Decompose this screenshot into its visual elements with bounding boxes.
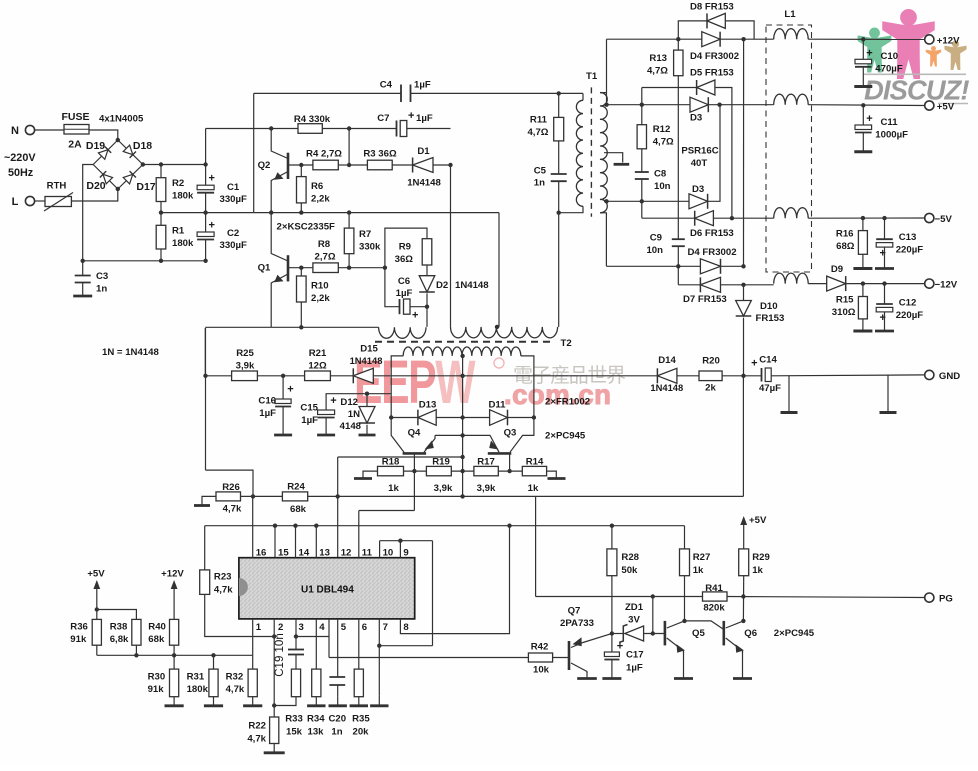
svg-text:PSR16C: PSR16C [681,146,718,157]
svg-text:12Ω: 12Ω [308,361,327,372]
svg-text:R38: R38 [110,622,128,633]
svg-text:1n: 1n [96,284,107,295]
svg-text:1N4148: 1N4148 [650,382,683,393]
svg-text:R23: R23 [214,572,232,583]
svg-text:C12: C12 [899,298,917,309]
svg-text:D3: D3 [692,184,704,195]
svg-text:4,7Ω: 4,7Ω [653,137,674,148]
svg-text:91k: 91k [148,684,165,695]
svg-text:1µF: 1µF [396,288,413,299]
svg-text:2k: 2k [705,383,716,394]
svg-text:+: + [330,395,336,407]
svg-text:Q3: Q3 [504,428,517,439]
svg-text:D8 FR153: D8 FR153 [690,1,734,12]
svg-text:16: 16 [256,548,267,559]
svg-text:2A: 2A [68,139,82,151]
svg-text:R27: R27 [693,552,711,563]
svg-text:4,7k: 4,7k [223,504,242,515]
svg-text:2×KSC2335F: 2×KSC2335F [277,222,336,233]
svg-text:1k: 1k [388,483,399,494]
svg-text:D5 FR153: D5 FR153 [690,68,734,79]
svg-text:1N = 1N4148: 1N = 1N4148 [102,347,159,358]
svg-text:R26: R26 [222,482,240,493]
svg-text:5: 5 [341,622,347,633]
svg-text:D1: D1 [417,146,430,157]
svg-text:6: 6 [362,622,367,633]
svg-text:R24: R24 [287,482,305,493]
svg-text:3,9k: 3,9k [477,483,496,494]
svg-text:GND: GND [939,371,960,382]
svg-text:C8: C8 [654,169,667,180]
svg-text:R15: R15 [836,295,854,306]
svg-text:3,9k: 3,9k [236,361,255,372]
svg-text:R12: R12 [653,124,671,135]
svg-text:C5: C5 [534,166,547,177]
svg-text:1N4148: 1N4148 [407,178,441,189]
svg-text:C2: C2 [227,228,239,239]
svg-text:50k: 50k [621,565,638,576]
svg-text:1000µF: 1000µF [875,130,908,141]
svg-text:2,2k: 2,2k [311,293,330,304]
svg-text:40T: 40T [691,158,708,169]
svg-text:Q7: Q7 [568,606,581,617]
svg-text:180k: 180k [172,238,194,249]
svg-text:~220V: ~220V [4,152,36,164]
svg-text:D20: D20 [86,180,105,192]
svg-text:1µF: 1µF [301,415,318,426]
svg-text:Q6: Q6 [744,628,757,639]
svg-text:R42: R42 [531,642,549,653]
svg-text:68k: 68k [148,634,165,645]
svg-text:220µF: 220µF [896,310,924,321]
svg-text:4,7k: 4,7k [226,684,245,695]
svg-text:2: 2 [278,622,283,633]
svg-text:+5V: +5V [749,515,767,526]
svg-text:1µF: 1µF [626,663,643,674]
svg-text:R31: R31 [187,672,205,683]
svg-text:C15: C15 [300,403,318,414]
svg-text:R35: R35 [352,714,370,725]
svg-text:15k: 15k [286,727,303,738]
svg-text:D19: D19 [86,140,105,152]
svg-text:R17: R17 [477,456,495,467]
svg-text:C10: C10 [881,51,899,62]
svg-text:R14: R14 [526,456,544,467]
svg-text:220µF: 220µF [896,245,924,256]
svg-text:2×PC945: 2×PC945 [774,628,815,639]
svg-text:180k: 180k [187,684,209,695]
svg-text:3,9k: 3,9k [434,483,453,494]
svg-text:−5V: −5V [935,214,953,225]
svg-text:R6: R6 [311,181,323,192]
svg-text:R11: R11 [530,115,548,126]
svg-text:2PA733: 2PA733 [560,618,594,629]
svg-text:D9: D9 [831,264,843,275]
svg-text:D4 FR3002: D4 FR3002 [690,51,739,62]
svg-text:11: 11 [362,548,373,559]
svg-text:3V: 3V [628,615,640,626]
svg-text:R41: R41 [705,583,723,594]
svg-text:47µF: 47µF [759,383,781,394]
svg-text:R25: R25 [236,348,254,359]
svg-text:330µF: 330µF [220,240,248,251]
svg-text:D14: D14 [658,355,676,366]
svg-text:Q5: Q5 [692,628,705,639]
svg-text:C7: C7 [377,113,389,124]
svg-text:820k: 820k [703,603,725,614]
svg-text:C20: C20 [328,714,346,725]
svg-text:6,8k: 6,8k [110,634,129,645]
svg-text:68Ω: 68Ω [836,241,855,252]
svg-text:FUSE: FUSE [61,111,89,123]
svg-text:+: + [866,48,872,60]
svg-text:10: 10 [383,548,394,559]
svg-text:C11: C11 [881,117,899,128]
svg-text:+5V: +5V [937,102,955,113]
svg-text:20k: 20k [352,727,369,738]
svg-text:1N4148: 1N4148 [350,355,383,366]
svg-text:+: + [412,310,418,322]
svg-text:4,7k: 4,7k [214,585,233,596]
svg-text:R29: R29 [752,552,770,563]
svg-text:R2: R2 [172,178,184,189]
svg-text:C13: C13 [899,232,917,243]
svg-text:+: + [208,220,214,232]
svg-text:91k: 91k [70,634,87,645]
svg-text:2×FR1002: 2×FR1002 [545,397,590,408]
svg-text:12: 12 [341,548,352,559]
svg-text:1µF: 1µF [416,113,433,124]
svg-text:14: 14 [299,548,310,559]
svg-text:4,7k: 4,7k [247,734,266,745]
svg-text:R21: R21 [309,348,327,359]
svg-text:D2: D2 [436,280,448,291]
svg-text:1µF: 1µF [414,80,431,91]
svg-text:R32: R32 [226,672,244,683]
svg-text:−12V: −12V [935,280,958,291]
svg-text:D11: D11 [488,399,506,410]
svg-text:R20: R20 [702,356,720,367]
svg-text:D18: D18 [133,140,152,152]
svg-text:R19: R19 [432,456,450,467]
svg-text:1k: 1k [752,565,763,576]
svg-text:10n: 10n [646,245,663,256]
svg-text:L: L [12,196,19,208]
svg-text:310Ω: 310Ω [832,307,856,318]
svg-text:1n: 1n [331,727,342,738]
svg-text:330µF: 330µF [220,194,248,205]
svg-text:10n: 10n [654,181,671,192]
svg-text:R16: R16 [836,229,854,240]
svg-text:+: + [866,113,872,125]
svg-text:+: + [617,641,623,653]
svg-text:C19 10n: C19 10n [274,633,286,676]
svg-text:4148: 4148 [340,421,362,432]
svg-text:N: N [11,125,19,137]
svg-text:R33: R33 [285,714,303,725]
svg-text:C16: C16 [258,396,276,407]
svg-text:10k: 10k [533,665,550,676]
svg-text:R4 2,7Ω: R4 2,7Ω [306,149,342,160]
svg-text:D10: D10 [760,301,778,312]
svg-text:C4: C4 [380,80,393,91]
svg-text:1k: 1k [528,483,539,494]
svg-text:13: 13 [319,548,330,559]
svg-text:D6 FR153: D6 FR153 [690,228,734,239]
svg-text:R22: R22 [248,721,266,732]
svg-text:R36: R36 [70,622,88,633]
svg-text:R10: R10 [311,281,329,292]
svg-text:C14: C14 [759,355,777,366]
svg-text:7: 7 [383,622,388,633]
svg-text:R3 36Ω: R3 36Ω [363,149,397,160]
svg-text:9: 9 [403,548,408,559]
svg-text:13k: 13k [307,727,324,738]
svg-text:T2: T2 [561,338,572,349]
svg-text:1N: 1N [348,409,360,420]
svg-text:R9: R9 [399,242,411,253]
svg-text:3: 3 [299,622,304,633]
svg-text:R7: R7 [359,229,371,240]
svg-text:U1 DBL494: U1 DBL494 [301,584,354,595]
svg-text:D12: D12 [340,397,358,408]
svg-text:15: 15 [278,548,289,559]
svg-text:330k: 330k [359,242,381,253]
svg-text:C6: C6 [398,276,410,287]
svg-text:+: + [208,173,214,185]
svg-text:D4 FR3002: D4 FR3002 [688,247,737,258]
svg-text:Q4: Q4 [408,428,421,439]
svg-text:+: + [408,110,414,122]
svg-text:R40: R40 [148,622,166,633]
svg-text:R13: R13 [649,53,667,64]
svg-text:+: + [287,384,293,396]
svg-text:ZD1: ZD1 [625,602,644,613]
svg-text:T1: T1 [586,71,598,82]
svg-text:C9: C9 [650,233,662,244]
svg-text:PG: PG [939,594,953,605]
svg-text:4: 4 [319,622,325,633]
svg-text:1k: 1k [693,565,704,576]
svg-text:C17: C17 [626,650,644,661]
svg-text:D15: D15 [360,344,378,355]
svg-text:8: 8 [403,622,409,633]
svg-text:R1: R1 [172,226,185,237]
svg-text:C3: C3 [96,271,108,282]
svg-text:1: 1 [256,622,262,633]
svg-text:180k: 180k [172,191,194,202]
svg-text:D7 FR153: D7 FR153 [683,294,727,305]
svg-text:1N4148: 1N4148 [455,280,489,291]
svg-text:36Ω: 36Ω [395,254,414,265]
svg-text:FR153: FR153 [756,313,785,324]
svg-text:R4 330k: R4 330k [294,114,331,125]
svg-text:1µF: 1µF [259,408,276,419]
svg-text:R8: R8 [318,239,331,250]
svg-text:R30: R30 [148,672,166,683]
svg-text:2×PC945: 2×PC945 [545,431,586,442]
svg-text:D13: D13 [419,399,437,410]
svg-text:68k: 68k [290,504,307,515]
svg-text:R18: R18 [382,456,400,467]
svg-text:C1: C1 [227,182,240,193]
svg-text:+: + [751,358,757,370]
svg-text:2,7Ω: 2,7Ω [314,252,335,263]
svg-text:470µF: 470µF [875,64,903,75]
svg-text:D3: D3 [690,113,702,124]
svg-text:R34: R34 [307,714,325,725]
svg-text:1n: 1n [534,178,545,189]
svg-text:+12V: +12V [161,569,184,580]
svg-text:+5V: +5V [87,569,105,580]
svg-text:4x1N4005: 4x1N4005 [99,114,144,125]
svg-text:Q1: Q1 [258,263,271,274]
svg-text:L1: L1 [784,9,796,20]
svg-text:4,7Ω: 4,7Ω [647,66,668,77]
svg-text:Q2: Q2 [258,160,271,171]
svg-text:4,7Ω: 4,7Ω [527,127,548,138]
svg-text:RTH: RTH [47,181,67,192]
svg-text:D17: D17 [136,181,155,193]
svg-text:2,2k: 2,2k [311,194,330,205]
svg-text:R28: R28 [621,552,639,563]
svg-text:50Hz: 50Hz [8,167,34,179]
svg-text:+12V: +12V [937,35,960,46]
